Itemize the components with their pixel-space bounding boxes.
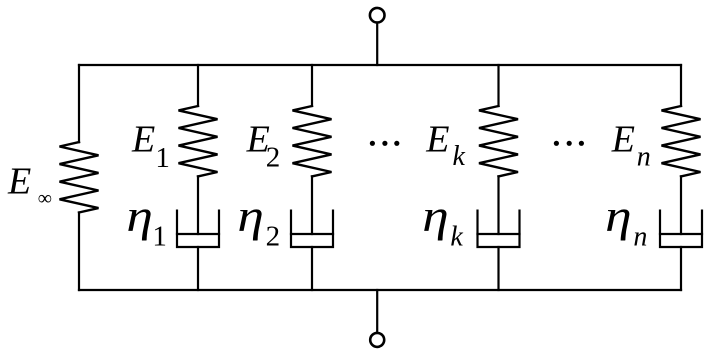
wire: E-infinity branch top lead <box>78 65 80 142</box>
svg-text:E: E <box>131 119 155 161</box>
label eta-k <box>422 191 463 253</box>
wire: branch n top lead <box>680 65 682 106</box>
dashpot eta-1 piston plate <box>177 233 219 235</box>
ellipsis dots between branch 2 and branch k <box>370 141 400 146</box>
wire: dashpot n piston rod <box>680 176 682 234</box>
svg-text:k: k <box>450 222 463 253</box>
label eta-1 <box>126 191 166 253</box>
spring E-infinity <box>60 142 99 212</box>
svg-text:η: η <box>126 191 152 242</box>
dashpot eta-1 cylinder cup <box>177 211 219 247</box>
spring E2 <box>293 106 332 176</box>
dashpot eta-2 cylinder cup <box>291 211 333 247</box>
label E-infinity <box>7 161 52 210</box>
top terminal node <box>370 8 385 23</box>
spring En <box>662 106 701 176</box>
label E2 <box>246 119 281 174</box>
svg-text:E: E <box>611 119 635 161</box>
wire: branch 1 top lead <box>197 65 199 106</box>
wire: dashpot 1 piston rod <box>197 176 199 234</box>
svg-text:∞: ∞ <box>38 188 52 210</box>
bottom terminal node <box>370 333 384 347</box>
svg-text:2: 2 <box>266 221 281 253</box>
spring E1 <box>179 106 218 176</box>
wire: bottom rail <box>79 289 681 291</box>
wire: branch k bottom lead <box>497 247 499 290</box>
svg-text:E: E <box>425 119 449 161</box>
wire: branch 1 bottom lead <box>197 247 199 290</box>
svg-text:1: 1 <box>155 142 170 174</box>
wire: top terminal lead <box>376 23 378 66</box>
dashpot eta-n cylinder cup <box>660 211 702 247</box>
svg-text:η: η <box>422 191 448 242</box>
wire: E-infinity branch bottom lead <box>78 213 80 291</box>
svg-text:η: η <box>605 191 631 242</box>
wire: bottom terminal lead <box>376 290 378 333</box>
wire: top rail <box>79 64 681 66</box>
svg-text:E: E <box>7 161 31 203</box>
wire: branch k top lead <box>497 65 499 106</box>
svg-text:n: n <box>637 141 651 172</box>
wire: dashpot 2 piston rod <box>311 176 313 234</box>
wire: branch n bottom lead <box>680 247 682 290</box>
dashpot eta-n piston plate <box>660 233 702 235</box>
label E1 <box>131 119 170 174</box>
spring Ek <box>479 106 518 176</box>
svg-text:2: 2 <box>266 142 281 174</box>
wire: branch 2 bottom lead <box>311 247 313 290</box>
svg-text:k: k <box>453 141 466 172</box>
label En <box>611 119 651 173</box>
label Ek <box>425 119 465 172</box>
dashpot eta-k piston plate <box>478 233 520 235</box>
svg-text:n: n <box>633 222 647 253</box>
label eta-2 <box>237 191 280 253</box>
dashpot eta-k cylinder cup <box>478 211 520 247</box>
wire: branch 2 top lead <box>311 65 313 106</box>
ellipsis dots between branch k and branch n <box>554 141 584 146</box>
svg-text:η: η <box>237 191 263 242</box>
label eta-n <box>605 191 647 253</box>
wire: dashpot k piston rod <box>497 176 499 234</box>
svg-text:1: 1 <box>152 221 167 253</box>
dashpot eta-2 piston plate <box>291 233 333 235</box>
